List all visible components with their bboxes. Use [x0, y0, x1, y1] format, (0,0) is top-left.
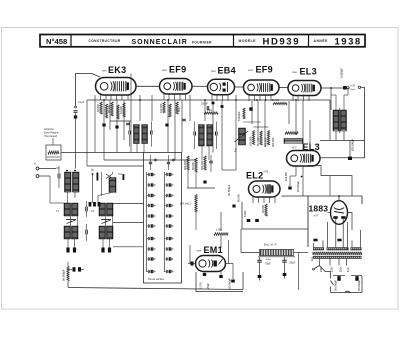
- svg-text:CONSTRUCTEUR: CONSTRUCTEUR: [89, 39, 121, 43]
- svg-text:mes: mes: [292, 71, 297, 74]
- svg-text:25µF: 25µF: [206, 283, 210, 289]
- svg-text:n°9: n°9: [314, 214, 319, 218]
- svg-text:ANNÉE: ANNÉE: [314, 38, 329, 43]
- svg-text:500.000: 500.000: [200, 160, 204, 170]
- svg-text:30.000: 30.000: [261, 205, 265, 213]
- svg-text:25.000pF: 25.000pF: [228, 278, 232, 289]
- svg-text:25µF: 25µF: [290, 262, 296, 265]
- svg-text:N°458: N°458: [46, 37, 67, 46]
- svg-text:mes: mes: [102, 70, 107, 73]
- svg-text:B.R. 8x0,1: B.R. 8x0,1: [180, 204, 191, 206]
- svg-text:300: 300: [177, 107, 181, 112]
- svg-text:2MΩ: 2MΩ: [207, 110, 212, 112]
- svg-text:EL3: EL3: [300, 67, 317, 77]
- svg-text:1883: 1883: [309, 204, 329, 214]
- svg-text:N°8: N°8: [264, 170, 269, 174]
- svg-text:30.000: 30.000: [107, 105, 111, 113]
- svg-text:EF9: EF9: [256, 65, 273, 75]
- svg-text:50.000pF: 50.000pF: [357, 280, 361, 291]
- svg-text:400.000: 400.000: [183, 160, 187, 170]
- svg-text:50.000: 50.000: [191, 162, 195, 170]
- svg-text:N°7: N°7: [292, 146, 297, 150]
- svg-text:EL2: EL2: [246, 171, 263, 181]
- svg-text:5.000: 5.000: [243, 210, 247, 217]
- svg-text:110v: 110v: [339, 266, 342, 272]
- svg-text:4x0,5W: 4x0,5W: [284, 172, 288, 181]
- svg-text:Ento-Plaque: Ento-Plaque: [44, 131, 59, 135]
- svg-text:A: A: [34, 162, 36, 166]
- svg-text:2.700: 2.700: [199, 282, 203, 289]
- svg-text:1938: 1938: [335, 36, 362, 47]
- svg-text:BD 500µF: BD 500µF: [351, 138, 355, 151]
- svg-text:400.000: 400.000: [264, 137, 268, 147]
- svg-text:100pF: 100pF: [201, 103, 208, 106]
- svg-text:6,3v: 6,3v: [347, 267, 350, 272]
- svg-text:10.000: 10.000: [119, 106, 123, 114]
- svg-text:EB4: EB4: [218, 66, 236, 76]
- svg-text:300.000: 300.000: [271, 137, 275, 147]
- svg-text:50.000: 50.000: [256, 138, 260, 146]
- svg-text:3.000: 3.000: [216, 229, 223, 232]
- svg-text:AV 500µF: AV 500µF: [227, 184, 231, 196]
- svg-text:25.000µF: 25.000µF: [296, 181, 300, 192]
- svg-text:(Tournesol): (Tournesol): [44, 134, 57, 138]
- svg-text:H.P.: H.P.: [351, 83, 356, 87]
- svg-text:mes: mes: [248, 69, 253, 72]
- svg-text:78µF: 78µF: [265, 263, 271, 266]
- svg-text:SONNECLAIR: SONNECLAIR: [132, 39, 188, 46]
- svg-text:50.000: 50.000: [96, 104, 100, 112]
- svg-text:50.000pF: 50.000pF: [62, 269, 66, 281]
- svg-text:50.000: 50.000: [272, 100, 280, 102]
- svg-text:5.000pF: 5.000pF: [340, 68, 344, 78]
- svg-text:0,1µF: 0,1µF: [78, 101, 85, 104]
- svg-text:120v: 120v: [330, 266, 333, 272]
- svg-text:Antenne: Antenne: [43, 127, 54, 131]
- svg-text:100.000: 100.000: [249, 136, 253, 146]
- svg-text:100.000: 100.000: [159, 103, 163, 113]
- svg-text:Excit.: Excit.: [351, 88, 357, 91]
- svg-text:EM1: EM1: [204, 245, 223, 255]
- svg-text:mes: mes: [197, 250, 202, 253]
- svg-text:EF9: EF9: [169, 65, 186, 75]
- svg-text:Fus.: Fus.: [310, 256, 314, 261]
- svg-text:MODÈLE: MODÈLE: [239, 38, 257, 43]
- svg-text:mes: mes: [211, 70, 216, 73]
- svg-text:FOURNIER: FOURNIER: [192, 41, 212, 45]
- svg-text:HD939: HD939: [263, 36, 301, 47]
- svg-text:50.000: 50.000: [237, 194, 241, 202]
- svg-text:Pouss secteur: Pouss secteur: [148, 277, 165, 281]
- svg-text:mes: mes: [162, 69, 167, 72]
- svg-text:EK3: EK3: [108, 65, 126, 75]
- svg-text:Filtre: Filtre: [266, 258, 272, 261]
- svg-text:5.000µF: 5.000µF: [237, 111, 241, 121]
- svg-text:Exc. H. P.: Exc. H. P.: [264, 243, 277, 247]
- svg-text:50.000pF: 50.000pF: [334, 280, 338, 291]
- svg-text:Pot: Pot: [234, 148, 238, 152]
